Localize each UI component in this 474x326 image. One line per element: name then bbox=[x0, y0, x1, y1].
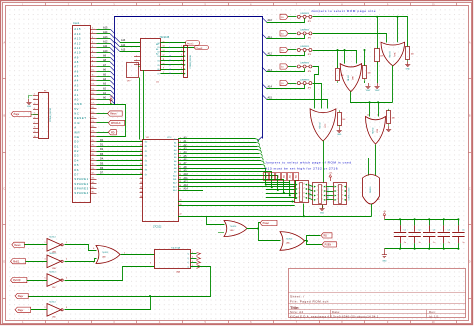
svg-text:GND: GND bbox=[74, 102, 82, 106]
svg-text:U?C: U?C bbox=[325, 123, 327, 127]
svg-text:26: 26 bbox=[180, 204, 182, 206]
svg-text:A11: A11 bbox=[173, 178, 176, 181]
svg-text:A14: A14 bbox=[173, 189, 176, 192]
svg-text:.1u: .1u bbox=[433, 242, 436, 244]
svg-text:3: 3 bbox=[45, 259, 46, 261]
svg-text:3: 3 bbox=[150, 263, 151, 265]
svg-text:RD: RD bbox=[324, 236, 328, 238]
svg-text:D0: D0 bbox=[74, 140, 79, 144]
svg-text:3: 3 bbox=[181, 54, 182, 56]
svg-text:12: 12 bbox=[169, 64, 171, 66]
svg-text:GND: GND bbox=[366, 90, 371, 92]
svg-text:A9: A9 bbox=[174, 171, 176, 174]
svg-text:CONN_01X04: CONN_01X04 bbox=[328, 187, 330, 201]
svg-text:Jumpers to select which page o: Jumpers to select which page of ROM is u… bbox=[265, 161, 352, 165]
svg-text:2: 2 bbox=[317, 190, 318, 192]
svg-text:Date:: Date: bbox=[332, 310, 341, 314]
svg-text:A2: A2 bbox=[74, 88, 79, 92]
svg-text:A14: A14 bbox=[289, 175, 292, 178]
svg-text:A12: A12 bbox=[184, 180, 189, 183]
svg-text:13: 13 bbox=[140, 149, 142, 151]
svg-text:A6: A6 bbox=[74, 69, 79, 73]
svg-text:1: 1 bbox=[317, 185, 318, 187]
svg-text:C4: C4 bbox=[447, 229, 449, 231]
svg-text:JUMPER3: JUMPER3 bbox=[300, 46, 309, 48]
svg-text:Clk: Clk bbox=[74, 121, 80, 125]
svg-text:A2: A2 bbox=[174, 145, 176, 148]
svg-text:Rev:: Rev: bbox=[429, 310, 436, 314]
svg-text:U5C: U5C bbox=[52, 287, 56, 289]
svg-text:U3: U3 bbox=[377, 199, 379, 201]
svg-text:PwrUD: PwrUD bbox=[13, 279, 21, 282]
svg-text:1: 1 bbox=[337, 185, 338, 187]
svg-text:SPARE4: SPARE4 bbox=[74, 191, 88, 195]
svg-text:4: 4 bbox=[136, 63, 137, 65]
svg-text:74LS74A: 74LS74A bbox=[171, 246, 181, 249]
svg-text:A5: A5 bbox=[74, 74, 79, 78]
svg-text:JUMPER3: JUMPER3 bbox=[300, 63, 309, 65]
svg-text:KiCad E.D.A. eeschema 4.0.5+e: KiCad E.D.A. eeschema 4.0.5+e0-6346~50~u… bbox=[290, 314, 379, 318]
svg-text:OE: OE bbox=[74, 135, 79, 139]
svg-text:Sheet: /: Sheet: / bbox=[290, 294, 305, 298]
svg-text:A13 must be set high for 2732: A13 must be set high for 2732 or 2716 bbox=[265, 167, 338, 171]
svg-text:Page: Page bbox=[18, 296, 24, 298]
svg-text:GND: GND bbox=[320, 212, 325, 214]
svg-text:D7: D7 bbox=[74, 172, 79, 176]
svg-text:7: 7 bbox=[303, 188, 304, 190]
svg-text:A7: A7 bbox=[174, 163, 176, 166]
svg-text:A3: A3 bbox=[174, 149, 176, 152]
svg-text:4: 4 bbox=[136, 59, 137, 61]
svg-text:C1: C1 bbox=[404, 229, 406, 231]
svg-text:12: 12 bbox=[140, 145, 142, 147]
svg-text:JUMPER3: JUMPER3 bbox=[300, 30, 309, 32]
svg-text:Jumpers to select ROM page siz: Jumpers to select ROM page size bbox=[311, 9, 376, 13]
svg-text:O2: O2 bbox=[157, 52, 160, 54]
svg-text:D4: D4 bbox=[145, 160, 147, 162]
svg-text:A14: A14 bbox=[121, 44, 126, 47]
svg-text:Page: Page bbox=[18, 310, 24, 312]
svg-text:74LS14: 74LS14 bbox=[49, 272, 56, 274]
svg-text:11: 11 bbox=[140, 140, 142, 142]
svg-text:4: 4 bbox=[34, 108, 35, 110]
svg-text:2: 2 bbox=[124, 253, 125, 255]
svg-text:11: 11 bbox=[169, 60, 171, 62]
svg-text:A15: A15 bbox=[268, 96, 273, 99]
svg-text:U6A: U6A bbox=[176, 270, 181, 273]
svg-text:U?D: U?D bbox=[377, 128, 379, 132]
svg-text:22: 22 bbox=[140, 177, 142, 179]
svg-text:Size: A4: Size: A4 bbox=[290, 310, 304, 314]
svg-text:9: 9 bbox=[34, 131, 35, 133]
svg-text:D2: D2 bbox=[74, 149, 79, 153]
svg-text:8: 8 bbox=[342, 185, 343, 187]
svg-text:D6: D6 bbox=[74, 168, 79, 172]
svg-text:1: 1 bbox=[181, 46, 182, 48]
svg-text:2: 2 bbox=[34, 98, 35, 100]
svg-text:18: 18 bbox=[140, 173, 142, 175]
svg-text:A12: A12 bbox=[268, 52, 273, 55]
svg-text:A1: A1 bbox=[174, 141, 176, 144]
svg-text:6: 6 bbox=[34, 117, 35, 119]
svg-text:Id: 1/1: Id: 1/1 bbox=[429, 314, 439, 318]
svg-text:3: 3 bbox=[337, 194, 338, 196]
svg-text:A13: A13 bbox=[283, 175, 286, 178]
svg-text:WR: WR bbox=[74, 130, 80, 134]
svg-text:74LS14: 74LS14 bbox=[49, 236, 56, 238]
svg-text:CONN_01X08: CONN_01X08 bbox=[190, 55, 192, 69]
svg-text:9: 9 bbox=[163, 68, 164, 70]
svg-text:O5: O5 bbox=[157, 65, 160, 67]
svg-text:PGselK: PGselK bbox=[195, 48, 203, 50]
svg-text:A4: A4 bbox=[174, 152, 176, 155]
svg-text:Page: Page bbox=[14, 113, 20, 116]
svg-text:.1u: .1u bbox=[418, 242, 421, 244]
svg-text:A10: A10 bbox=[265, 175, 268, 178]
svg-text:15: 15 bbox=[163, 41, 165, 43]
svg-text:A15: A15 bbox=[74, 27, 81, 31]
svg-text:NC: NC bbox=[74, 112, 79, 116]
svg-text:C2: C2 bbox=[418, 229, 420, 231]
svg-text:5: 5 bbox=[45, 277, 46, 279]
svg-text:13: 13 bbox=[169, 69, 171, 71]
svg-text:6: 6 bbox=[66, 277, 67, 279]
svg-text:C3: C3 bbox=[433, 229, 435, 231]
svg-text:CONN_01X10: CONN_01X10 bbox=[50, 107, 52, 122]
svg-text:A13: A13 bbox=[268, 69, 273, 72]
svg-text:74LS30: 74LS30 bbox=[370, 187, 372, 194]
svg-text:4: 4 bbox=[299, 197, 300, 199]
svg-text:8: 8 bbox=[34, 126, 35, 128]
svg-text:O4: O4 bbox=[157, 60, 160, 62]
svg-text:22: 22 bbox=[180, 214, 182, 216]
svg-text:GND: GND bbox=[337, 134, 342, 136]
svg-text:A7: A7 bbox=[74, 65, 79, 69]
svg-text:A11: A11 bbox=[103, 45, 108, 48]
svg-text:74LS32: 74LS32 bbox=[389, 51, 391, 58]
svg-text:A12: A12 bbox=[173, 182, 176, 185]
svg-text:7: 7 bbox=[181, 72, 182, 74]
svg-text:JUMPER3: JUMPER3 bbox=[300, 79, 309, 81]
svg-text:PGEN: PGEN bbox=[325, 245, 332, 247]
svg-text:3: 3 bbox=[34, 103, 35, 105]
svg-text:74LS14: 74LS14 bbox=[49, 301, 56, 303]
svg-text:A8: A8 bbox=[174, 167, 176, 170]
svg-text:D7: D7 bbox=[145, 174, 147, 176]
svg-text:A11: A11 bbox=[268, 36, 273, 39]
svg-text:74LS14: 74LS14 bbox=[49, 253, 56, 255]
svg-text:.1u: .1u bbox=[462, 242, 465, 244]
svg-text:5: 5 bbox=[342, 199, 343, 201]
svg-text:PhiOut: PhiOut bbox=[187, 42, 194, 45]
svg-text:O3: O3 bbox=[157, 56, 160, 58]
svg-text:PGsel: PGsel bbox=[263, 223, 270, 225]
svg-text:1: 1 bbox=[34, 94, 35, 96]
svg-text:A11: A11 bbox=[271, 175, 274, 178]
svg-text:RESET: RESET bbox=[74, 116, 86, 120]
svg-text:5: 5 bbox=[303, 197, 304, 199]
svg-text:4: 4 bbox=[317, 199, 318, 201]
svg-text:D5: D5 bbox=[145, 165, 147, 167]
svg-text:D: D bbox=[3, 261, 5, 264]
svg-text:7: 7 bbox=[163, 72, 164, 74]
svg-text:8: 8 bbox=[169, 47, 170, 49]
svg-text:A14: A14 bbox=[74, 32, 81, 36]
svg-text:A12: A12 bbox=[277, 175, 280, 178]
svg-text:RD: RD bbox=[111, 131, 115, 134]
svg-text:4: 4 bbox=[337, 199, 338, 201]
svg-text:Title:: Title: bbox=[290, 305, 299, 310]
svg-text:A10: A10 bbox=[173, 174, 176, 177]
svg-text:A10: A10 bbox=[268, 19, 273, 22]
svg-text:7: 7 bbox=[169, 43, 170, 45]
svg-text:D1: D1 bbox=[74, 144, 79, 148]
svg-text:A9: A9 bbox=[74, 55, 79, 59]
svg-text:12: 12 bbox=[367, 115, 369, 117]
svg-text:C5: C5 bbox=[462, 229, 464, 231]
svg-text:SPARE2: SPARE2 bbox=[74, 182, 88, 186]
svg-text:U5D: U5D bbox=[52, 317, 56, 319]
svg-text:24: 24 bbox=[140, 187, 142, 189]
svg-text:7: 7 bbox=[322, 190, 323, 192]
svg-text:A10: A10 bbox=[74, 51, 81, 55]
svg-text:GND: GND bbox=[406, 69, 411, 71]
svg-text:14: 14 bbox=[163, 46, 165, 48]
svg-text:5: 5 bbox=[192, 252, 193, 254]
svg-text:74LS32: 74LS32 bbox=[373, 128, 375, 135]
svg-text:4: 4 bbox=[66, 259, 67, 261]
svg-text:4: 4 bbox=[136, 55, 137, 57]
svg-text:15: 15 bbox=[140, 159, 142, 161]
svg-text:10: 10 bbox=[169, 56, 171, 58]
svg-text:74LS02: 74LS02 bbox=[286, 239, 292, 241]
svg-text:A13: A13 bbox=[173, 185, 176, 188]
svg-text:Con1: Con1 bbox=[73, 21, 80, 25]
svg-text:25: 25 bbox=[140, 191, 142, 193]
svg-text:D5: D5 bbox=[74, 163, 79, 167]
svg-text:2: 2 bbox=[181, 50, 182, 52]
svg-text:Reset: Reset bbox=[14, 244, 20, 247]
svg-text:6: 6 bbox=[303, 192, 304, 194]
svg-text:A8: A8 bbox=[74, 60, 79, 64]
svg-text:26: 26 bbox=[140, 196, 142, 198]
svg-text:1: 1 bbox=[299, 183, 300, 185]
svg-text:D: D bbox=[469, 261, 471, 264]
svg-text:3: 3 bbox=[299, 192, 300, 194]
svg-text:D3: D3 bbox=[145, 156, 147, 158]
svg-text:O1: O1 bbox=[157, 47, 160, 49]
svg-text:5: 5 bbox=[93, 262, 94, 264]
svg-text:D3: D3 bbox=[74, 154, 79, 158]
svg-text:SPARE1: SPARE1 bbox=[74, 177, 88, 181]
svg-text:74LS32: 74LS32 bbox=[102, 252, 108, 254]
svg-text:GND: GND bbox=[27, 106, 32, 108]
svg-text:A11: A11 bbox=[74, 46, 81, 50]
svg-text:2: 2 bbox=[337, 190, 338, 192]
svg-text:A15: A15 bbox=[103, 26, 108, 29]
svg-text:10: 10 bbox=[163, 63, 165, 65]
svg-text:D2: D2 bbox=[145, 151, 147, 153]
svg-text:A13: A13 bbox=[121, 39, 126, 42]
svg-text:74LS138: 74LS138 bbox=[160, 36, 170, 39]
svg-text:CONN_01X04: CONN_01X04 bbox=[310, 185, 312, 199]
svg-text:14: 14 bbox=[169, 73, 171, 75]
svg-text:74LS32: 74LS32 bbox=[348, 75, 350, 82]
svg-text:5: 5 bbox=[181, 63, 182, 65]
svg-text:2: 2 bbox=[299, 188, 300, 190]
svg-text:A12: A12 bbox=[103, 40, 108, 43]
svg-text:13: 13 bbox=[163, 50, 165, 52]
svg-text:.1u: .1u bbox=[404, 242, 407, 244]
svg-text:8: 8 bbox=[322, 185, 323, 187]
svg-text:17: 17 bbox=[140, 168, 142, 170]
svg-text:C: C bbox=[3, 188, 5, 191]
svg-text:23: 23 bbox=[140, 182, 142, 184]
svg-text:7: 7 bbox=[34, 122, 35, 124]
svg-text:2: 2 bbox=[66, 242, 67, 244]
svg-text:A15: A15 bbox=[295, 175, 298, 178]
svg-text:D1: D1 bbox=[145, 146, 147, 148]
svg-text:A5: A5 bbox=[174, 156, 176, 159]
svg-text:14: 14 bbox=[140, 154, 142, 156]
svg-text:8: 8 bbox=[303, 183, 304, 185]
svg-text:.1u: .1u bbox=[447, 242, 450, 244]
svg-text:A3: A3 bbox=[74, 83, 79, 87]
svg-text:6: 6 bbox=[192, 257, 193, 259]
svg-text:SPARE3: SPARE3 bbox=[74, 186, 88, 190]
svg-text:16: 16 bbox=[140, 163, 142, 165]
svg-text:11: 11 bbox=[163, 59, 165, 61]
svg-text:74LS32: 74LS32 bbox=[319, 122, 321, 129]
svg-text:A14: A14 bbox=[103, 31, 108, 34]
svg-text:12: 12 bbox=[163, 54, 165, 56]
svg-text:A6: A6 bbox=[174, 160, 176, 163]
svg-text:Phi02: Phi02 bbox=[13, 261, 20, 263]
svg-text:A0: A0 bbox=[74, 97, 79, 101]
svg-text:6: 6 bbox=[322, 194, 323, 196]
svg-text:JUMPER3: JUMPER3 bbox=[300, 13, 309, 15]
svg-text:7: 7 bbox=[342, 190, 343, 192]
svg-text:O0: O0 bbox=[157, 43, 160, 45]
svg-text:A15: A15 bbox=[121, 49, 126, 52]
svg-text:A10: A10 bbox=[103, 50, 108, 53]
svg-text:O6: O6 bbox=[157, 69, 160, 71]
svg-text:A1: A1 bbox=[74, 93, 79, 97]
svg-text:D4: D4 bbox=[74, 158, 79, 162]
svg-text:A12: A12 bbox=[74, 41, 81, 45]
svg-text:1: 1 bbox=[45, 242, 46, 244]
svg-text:5: 5 bbox=[322, 199, 323, 201]
svg-text:VCC: VCC bbox=[167, 137, 172, 139]
svg-text:10: 10 bbox=[34, 136, 36, 138]
svg-text:D6: D6 bbox=[145, 170, 147, 172]
svg-text:GND: GND bbox=[382, 261, 387, 263]
svg-text:A14: A14 bbox=[268, 85, 273, 88]
svg-text:GND: GND bbox=[375, 90, 380, 92]
svg-text:5V: 5V bbox=[74, 107, 79, 111]
svg-text:9: 9 bbox=[45, 307, 46, 309]
svg-text:A13: A13 bbox=[74, 37, 81, 41]
svg-text:D0: D0 bbox=[145, 142, 147, 144]
svg-text:6: 6 bbox=[342, 194, 343, 196]
svg-text:4: 4 bbox=[93, 248, 94, 250]
svg-text:A: A bbox=[74, 126, 76, 130]
svg-text:74LS02: 74LS02 bbox=[230, 226, 236, 228]
svg-text:A4: A4 bbox=[74, 79, 79, 83]
svg-text:C: C bbox=[469, 188, 471, 191]
svg-text:File: Paged ROM.sch: File: Paged ROM.sch bbox=[290, 299, 329, 303]
svg-text:4: 4 bbox=[181, 59, 182, 61]
svg-text:25: 25 bbox=[180, 200, 182, 202]
svg-text:A13: A13 bbox=[103, 36, 108, 39]
svg-text:3: 3 bbox=[317, 194, 318, 196]
svg-text:A0: A0 bbox=[174, 138, 176, 141]
svg-text:MHzCLK: MHzCLK bbox=[111, 122, 121, 125]
svg-text:5: 5 bbox=[34, 112, 35, 114]
svg-text:CONN_01X04: CONN_01X04 bbox=[348, 187, 350, 201]
svg-text:O7: O7 bbox=[157, 74, 160, 76]
svg-text:27C512: 27C512 bbox=[153, 226, 162, 229]
svg-text:6: 6 bbox=[181, 68, 182, 70]
svg-text:8: 8 bbox=[66, 307, 67, 309]
svg-text:Reset: Reset bbox=[110, 113, 117, 116]
svg-text:8: 8 bbox=[192, 261, 193, 263]
svg-text:9: 9 bbox=[169, 51, 170, 53]
